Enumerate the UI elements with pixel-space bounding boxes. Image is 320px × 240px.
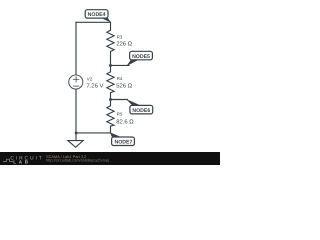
svg-text:NODE7: NODE7 (114, 140, 132, 146)
wire left rail lower (75, 89, 77, 140)
wire top from V2 to R3 corner (76, 22, 111, 30)
svg-text:7.26 V: 7.26 V (86, 82, 103, 89)
wire left rail upper (75, 22, 77, 75)
node NODE5 flag (126, 51, 152, 66)
resistor R5 (107, 106, 114, 126)
svg-text:NODE6: NODE6 (132, 108, 150, 114)
svg-text:LAB: LAB (13, 159, 31, 164)
wire R5 to bottom corner (110, 126, 112, 133)
svg-text:82.6 Ω: 82.6 Ω (116, 118, 134, 125)
wire NODE6 leader (111, 99, 128, 101)
node NODE6 flag (126, 99, 153, 114)
wire NODE5 leader (111, 64, 130, 66)
resistor R3 (107, 30, 114, 51)
svg-text:R4: R4 (117, 76, 123, 81)
ground (68, 141, 83, 148)
svg-text:526 Ω: 526 Ω (116, 82, 132, 89)
wire bottom from corner to ground rail (76, 132, 111, 134)
svg-text:R3: R3 (117, 34, 123, 39)
voltage source V2 (69, 75, 83, 89)
svg-text:NODE4: NODE4 (88, 12, 106, 18)
svg-text:V2: V2 (87, 77, 93, 82)
svg-text:NODE5: NODE5 (132, 54, 150, 60)
wire R4 to NODE6 junction (110, 93, 112, 106)
node NODE4 flag (85, 10, 111, 23)
footer CircuitLab logo (3, 156, 44, 165)
node NODE7 flag (110, 132, 134, 145)
junction ground (75, 132, 78, 135)
svg-text:http://circuitlab.com/c663kpza: http://circuitlab.com/c663kpza25maq (46, 157, 109, 162)
svg-text:226 Ω: 226 Ω (116, 40, 132, 47)
resistor R4 (107, 72, 114, 93)
junction node5 (109, 64, 112, 67)
svg-text:R5: R5 (117, 112, 123, 117)
junction node6 (109, 98, 112, 101)
wire R3 to NODE5 junction (110, 52, 112, 72)
footer bar (0, 152, 220, 165)
